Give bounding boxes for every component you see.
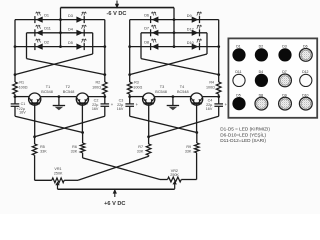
wire center column to -6V rail [60,8,62,47]
wire cap left drop [14,106,16,116]
svg-text:D10: D10 [302,93,308,97]
resistor R3 [127,82,132,94]
wire row3 right [174,46,219,48]
svg-text:D9: D9 [282,93,287,97]
capacitor C2 [101,104,110,106]
wire +6V bottom rail [58,188,175,190]
svg-text:D5: D5 [68,41,73,45]
wire R5 drop to VR1 [34,155,36,180]
svg-text:D12: D12 [302,70,308,74]
node center row3 [59,45,62,48]
LED D3 [76,12,86,23]
wire diagonal cap-right to base-left [35,116,105,137]
svg-text:+6 V DC: +6 V DC [104,201,125,207]
panel LED D9 [279,97,292,110]
node left rail diag [14,73,17,76]
wire resistor to node right [218,94,220,96]
svg-text:D1: D1 [44,13,49,17]
wire row1 right [174,19,219,21]
transistor T2 [76,93,88,105]
wire diagonal R6 to VR2 [83,158,160,180]
svg-text:D2: D2 [44,40,49,44]
svg-text:R933K: R933K [185,145,192,154]
wire resistor to node right [104,94,106,96]
wiper VR1 [55,181,59,189]
panel LED D12 [300,74,312,86]
panel LED D7 [279,74,292,87]
panel LED D11 [233,74,245,86]
svg-text:D4: D4 [259,70,264,74]
svg-text:D9: D9 [187,14,192,18]
LED D8 [151,39,159,50]
svg-text:-6 V DC: -6 V DC [107,11,127,17]
wire row1 right [61,19,105,21]
panel LED D1 [232,48,245,61]
wire base left drop [148,105,150,137]
svg-text:R633K: R633K [71,145,78,154]
power +6 V DC arrow [113,189,117,197]
power -6 V DC arrow [115,1,119,9]
svg-text:C222µ16V: C222µ16V [92,99,99,112]
transistor T1 [29,93,41,105]
node base left [147,135,150,138]
wire transistor to collector right [89,96,105,98]
wire inner-right drop [92,33,94,54]
wire inner-right drop [206,33,208,54]
wire -6V top rail [61,7,175,9]
node collector left [128,95,131,98]
wire collector left to transistor [130,96,143,98]
ground [167,97,179,111]
node center row2 [173,31,176,34]
wiper VR2 [173,181,177,189]
wire diagonal cap-right to base-left [149,116,219,137]
wire center column to -6V rail [173,8,175,47]
resistor R2 [103,82,108,94]
wire emitters common [41,96,77,98]
wire R6 drop [82,153,84,158]
wire node to cap right [218,97,220,104]
resistor R4 [216,82,221,94]
resistor R9 [195,143,200,153]
svg-text:D3: D3 [68,14,73,18]
LED D5 [76,39,86,50]
wire base left drop [34,105,36,137]
wire base node to resistor [148,137,150,144]
panel LED D6 [299,49,312,62]
LED D1 [35,12,43,23]
panel LED D10 [299,97,312,110]
svg-text:D10: D10 [187,41,194,45]
svg-text:D3: D3 [282,45,287,49]
transistor T3 [143,93,155,105]
LED D11 [35,25,43,36]
wire right rail [218,20,220,82]
svg-text:D6-D10=LED (YEŞİL): D6-D10=LED (YEŞİL) [220,131,266,137]
svg-text:D11-D12=LED (SARI): D11-D12=LED (SARI) [220,138,266,143]
node emitter common [58,95,61,98]
node left rail row3 [14,45,17,48]
resistor R5 [32,144,37,155]
svg-text:D11: D11 [44,27,51,31]
node right rail row3 [217,45,220,48]
potentiometer VR2 [168,177,182,182]
wire VR2 to R9 [181,179,196,181]
panel LED display board [228,38,317,117]
LED D6 [151,12,159,23]
node right rail diag [103,73,106,76]
panel LED D4 [255,74,268,87]
svg-text:C422µ16V: C422µ16V [206,99,213,112]
resistor R6 [80,143,85,153]
LED D9 [192,12,202,23]
svg-text:D12: D12 [187,27,194,31]
resistor R7 [146,144,151,155]
node collector left [14,95,17,98]
wire right rail [104,20,106,82]
wire cap right drop [104,106,106,116]
wire inner-left drop [140,33,142,59]
wire node to cap left [129,97,131,104]
node base right [81,131,84,134]
svg-text:C322µ16V: C322µ16V [117,99,124,112]
svg-text:R733K: R733K [137,145,144,154]
wire resistor to node left [129,94,131,96]
wire row3 left [15,46,61,48]
wire cap left drop [129,106,131,116]
node base right [195,131,198,134]
wire collector left to transistor [15,96,29,98]
wire row1 left [130,19,174,21]
node right rail row3 [103,45,106,48]
wire diagonal VR1 to R7 [78,156,149,180]
wire diagonal cap-left to base-right [130,116,197,132]
node center row1 [59,18,62,21]
wire row2 left [27,32,61,34]
capacitor C4 [214,104,223,106]
node emitter common [172,95,175,98]
svg-text:D6: D6 [144,13,149,17]
wire cap right drop [218,106,220,116]
LED D2 [35,39,43,50]
wire base node to resistor [196,133,198,144]
node center row3 [173,45,176,48]
wire base right drop [196,105,198,132]
wire node to cap right [104,97,106,104]
wire resistor to node left [14,94,16,96]
svg-text:D8: D8 [144,40,149,44]
wire VR1 to diagonal [64,179,78,181]
wire base right drop [81,105,83,132]
svg-text:D1-D5 = LED (KIRMIZI): D1-D5 = LED (KIRMIZI) [220,126,270,131]
resistor R1 [13,82,18,94]
wire left rail [14,20,16,82]
potentiometer VR1 [52,178,64,183]
svg-text:D6: D6 [303,45,308,49]
panel LED D8 [255,97,268,110]
wire base node to resistor [34,137,36,144]
wire row2 right [61,32,93,34]
wire row2 right [174,32,207,34]
wire emitters common [155,96,191,98]
wire left rail [129,20,131,82]
LED D10 [192,39,202,50]
svg-text:D1: D1 [236,45,241,49]
wire diagonal inner-right to left rail [15,54,93,75]
wire R7 drop [148,155,150,156]
panel LED D2 [255,48,268,61]
node right rail diag [217,73,220,76]
svg-text:D7: D7 [144,27,149,31]
wire row2 left [141,32,174,34]
wire row3 right [61,46,105,48]
wire diagonal cap-left to base-right [15,116,83,132]
node center row2 [59,31,62,34]
node left rail diag [128,73,131,76]
panel LED D5 [232,97,245,110]
LED D7 [151,25,159,36]
node collector right [217,95,220,98]
capacitor C1 [11,104,20,106]
wire diagonal inner-left to right rail [141,59,219,75]
wire diagonal inner-left to right rail [27,59,105,75]
wire node to cap left [14,97,16,104]
LED D12 [192,25,202,36]
node left rail row3 [128,45,131,48]
wire inner-left drop [26,33,28,59]
svg-text:D5: D5 [236,93,241,97]
svg-text:D7: D7 [282,70,287,74]
svg-text:D8: D8 [259,93,264,97]
svg-text:D4: D4 [68,27,73,31]
wire transistor to collector right [203,96,219,98]
node collector right [103,95,106,98]
panel LED D3 [278,48,291,61]
capacitor C3 [125,104,134,106]
wire base node to resistor [82,133,84,144]
transistor T4 [191,93,203,105]
wire row3 left [130,46,174,48]
wire row1 left [15,19,61,21]
wire diagonal inner-right to left rail [130,54,207,75]
LED D4 [76,25,86,36]
svg-text:D11: D11 [235,70,241,74]
ground [53,97,65,111]
node base left [33,135,36,138]
node center row1 [173,18,176,21]
svg-text:D2: D2 [259,45,264,49]
